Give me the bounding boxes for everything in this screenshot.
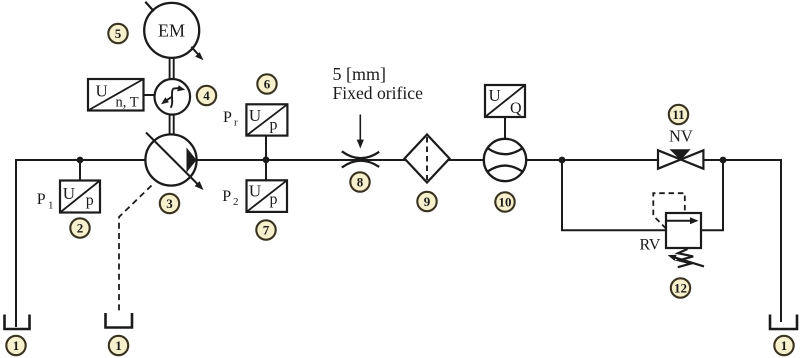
svg-text:P: P — [222, 188, 231, 205]
svg-text:1: 1 — [115, 338, 122, 353]
svg-text:6: 6 — [264, 77, 271, 92]
label P2 — [222, 188, 238, 208]
svg-text:1: 1 — [48, 200, 54, 212]
badge 2 — [70, 218, 89, 237]
tank T1 left — [5, 315, 30, 330]
svg-text:EM: EM — [158, 21, 185, 41]
junction dot at Pr/P2 tap — [263, 156, 270, 163]
label Pr — [223, 109, 238, 128]
fixed orifice O8 — [342, 151, 379, 167]
wire main supply line — [16, 159, 658, 161]
sensor box U/Q — [485, 85, 525, 117]
svg-text:9: 9 — [424, 194, 431, 209]
svg-text:8: 8 — [357, 175, 364, 190]
svg-text:4: 4 — [203, 88, 210, 103]
shaft EM to sensor 4 (double line) — [170, 58, 174, 80]
speed sensor circle U4 — [155, 79, 191, 115]
svg-text:p: p — [86, 192, 94, 209]
svg-text:7: 7 — [263, 223, 270, 238]
wire Pr sensor connector — [265, 137, 267, 161]
junction dot after NV — [720, 157, 727, 164]
svg-text:n, T: n, T — [116, 95, 139, 111]
label 5 [mm] Fixed orifice — [333, 64, 424, 103]
svg-text:U: U — [249, 106, 261, 125]
RV pilot dashed line — [653, 193, 685, 228]
badge 5 — [108, 24, 127, 43]
label P1 — [37, 191, 54, 211]
svg-text:U: U — [249, 181, 261, 200]
RV adjustment arrow — [668, 255, 704, 267]
tank T3 right — [770, 315, 797, 330]
svg-text:U: U — [63, 184, 75, 203]
badge 12 — [671, 278, 690, 297]
shaft sensor 4 to pump (double line) — [170, 114, 174, 135]
svg-text:5 [mm]: 5 [mm] — [333, 64, 387, 84]
svg-text:1: 1 — [13, 338, 20, 353]
svg-text:U: U — [489, 86, 501, 105]
sensor box P1 (U/p) — [60, 181, 100, 213]
badge 1 left tank — [6, 336, 25, 355]
tank T2 drain — [106, 313, 133, 328]
svg-text:5: 5 — [115, 26, 122, 41]
badge 1 right tank — [774, 336, 793, 355]
svg-text:P: P — [37, 191, 46, 208]
wire RV branch from flow meter junction — [562, 160, 723, 230]
badge 10 — [495, 192, 514, 211]
svg-text:RV: RV — [640, 237, 661, 254]
badge 9 — [417, 192, 436, 211]
svg-text:11: 11 — [672, 107, 684, 122]
wire NV outlet to right drop — [703, 159, 781, 161]
sensor box P2 (U/p) — [247, 180, 288, 212]
filter F9 — [405, 135, 450, 183]
electric motor EM — [144, 2, 203, 61]
pump P (variable displacement) — [145, 133, 203, 191]
relief valve RV — [666, 213, 701, 248]
orifice pointer arrow — [357, 115, 364, 149]
wire P1 sensor connector — [79, 160, 81, 181]
badge 1 drain tank — [109, 336, 128, 355]
svg-text:12: 12 — [674, 281, 687, 296]
svg-text:U: U — [96, 82, 108, 101]
svg-text:p: p — [270, 116, 278, 133]
svg-text:10: 10 — [499, 195, 512, 210]
sensor box U n,T — [88, 79, 144, 111]
wire UQ sensor connector — [504, 117, 506, 139]
wire P2 sensor connector — [265, 160, 267, 180]
junction dot after flow meter — [559, 157, 566, 164]
wire UnT sensor connector — [144, 94, 155, 96]
wire dashed drain line to tank — [119, 186, 152, 314]
svg-text:1: 1 — [781, 338, 788, 353]
wire right tank drop — [780, 159, 782, 322]
flow meter Q10 — [484, 139, 526, 181]
wire left tank drop — [15, 159, 17, 327]
svg-text:r: r — [234, 116, 238, 128]
sensor box Pr (U/p) — [246, 104, 287, 135]
badge 4 — [197, 86, 216, 105]
svg-text:NV: NV — [669, 127, 693, 146]
needle valve NV — [658, 149, 703, 168]
badge 11 — [669, 105, 688, 124]
badge 7 — [256, 220, 275, 239]
badge 3 — [160, 194, 179, 213]
svg-text:Fixed orifice: Fixed orifice — [333, 83, 424, 103]
badge 6 — [257, 74, 276, 93]
badge 8 — [350, 172, 369, 191]
svg-text:2: 2 — [233, 196, 239, 208]
svg-text:2: 2 — [77, 221, 84, 236]
svg-text:Q: Q — [510, 100, 522, 117]
svg-text:p: p — [270, 191, 278, 208]
svg-text:P: P — [223, 109, 232, 126]
svg-text:3: 3 — [166, 196, 173, 211]
junction dot at P1 tap — [77, 157, 84, 164]
RV spring — [678, 249, 693, 267]
